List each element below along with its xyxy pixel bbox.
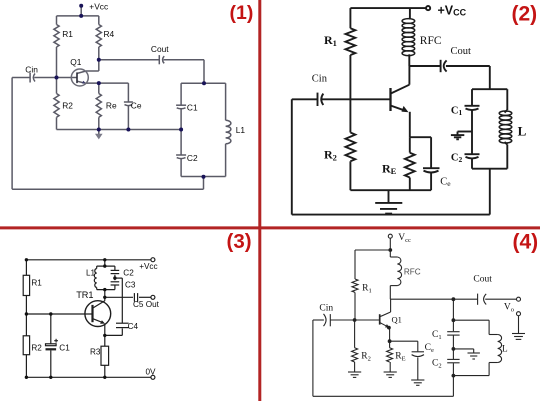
svg-text:C2: C2 [451, 153, 463, 165]
svg-text:RFC: RFC [404, 268, 421, 277]
svg-text:Vo: Vo [504, 303, 514, 314]
svg-text:C3: C3 [125, 281, 136, 290]
svg-text:Cin: Cin [312, 74, 328, 85]
svg-text:Cout: Cout [151, 44, 169, 54]
svg-text:+Vcc: +Vcc [89, 1, 108, 11]
svg-text:R2: R2 [62, 100, 73, 110]
svg-text:Cin: Cin [25, 65, 38, 75]
svg-text:(2): (2) [512, 3, 538, 26]
svg-text:R3: R3 [90, 348, 101, 357]
svg-text:R1: R1 [362, 284, 372, 295]
svg-text:+Vcc: +Vcc [139, 262, 157, 271]
svg-text:Cout: Cout [451, 46, 472, 57]
svg-text:(4): (4) [513, 231, 539, 254]
svg-text:L1: L1 [86, 268, 96, 277]
svg-text:Re: Re [106, 100, 117, 110]
svg-text:Cout: Cout [473, 275, 492, 285]
svg-text:RE: RE [395, 352, 405, 363]
svg-text:0V: 0V [146, 368, 157, 377]
svg-text:R2: R2 [324, 148, 337, 163]
svg-text:L: L [518, 124, 527, 139]
svg-text:C1: C1 [451, 106, 463, 118]
svg-text:Cin: Cin [319, 304, 333, 314]
svg-text:RE: RE [382, 162, 397, 177]
svg-text:R1: R1 [31, 278, 42, 287]
svg-text:Vcc: Vcc [398, 233, 411, 244]
svg-text:Q1: Q1 [70, 57, 82, 67]
svg-text:Ce: Ce [425, 343, 434, 354]
svg-text:C2: C2 [432, 359, 442, 370]
svg-text:L: L [502, 345, 508, 355]
svg-text:RFC: RFC [420, 35, 442, 47]
svg-text:+VCC: +VCC [438, 4, 467, 18]
svg-text:C5 Out: C5 Out [133, 300, 160, 309]
svg-text:L1: L1 [236, 125, 246, 135]
svg-text:(3): (3) [227, 230, 252, 253]
svg-text:C1: C1 [432, 330, 442, 341]
svg-text:TR1: TR1 [76, 290, 93, 300]
svg-text:C1: C1 [187, 103, 198, 113]
svg-text:R2: R2 [31, 343, 42, 352]
svg-text:C4: C4 [128, 322, 139, 331]
svg-text:Ce: Ce [131, 100, 142, 110]
svg-text:R1: R1 [324, 33, 337, 48]
svg-text:C1: C1 [59, 343, 70, 352]
svg-text:R4: R4 [104, 29, 115, 39]
svg-text:(1): (1) [230, 2, 254, 24]
svg-text:R2: R2 [361, 352, 371, 363]
svg-text:C2: C2 [187, 153, 198, 163]
svg-text:Q1: Q1 [392, 315, 402, 325]
svg-text:C2: C2 [123, 268, 134, 277]
svg-text:Ce: Ce [440, 177, 451, 189]
svg-text:R1: R1 [62, 29, 73, 39]
